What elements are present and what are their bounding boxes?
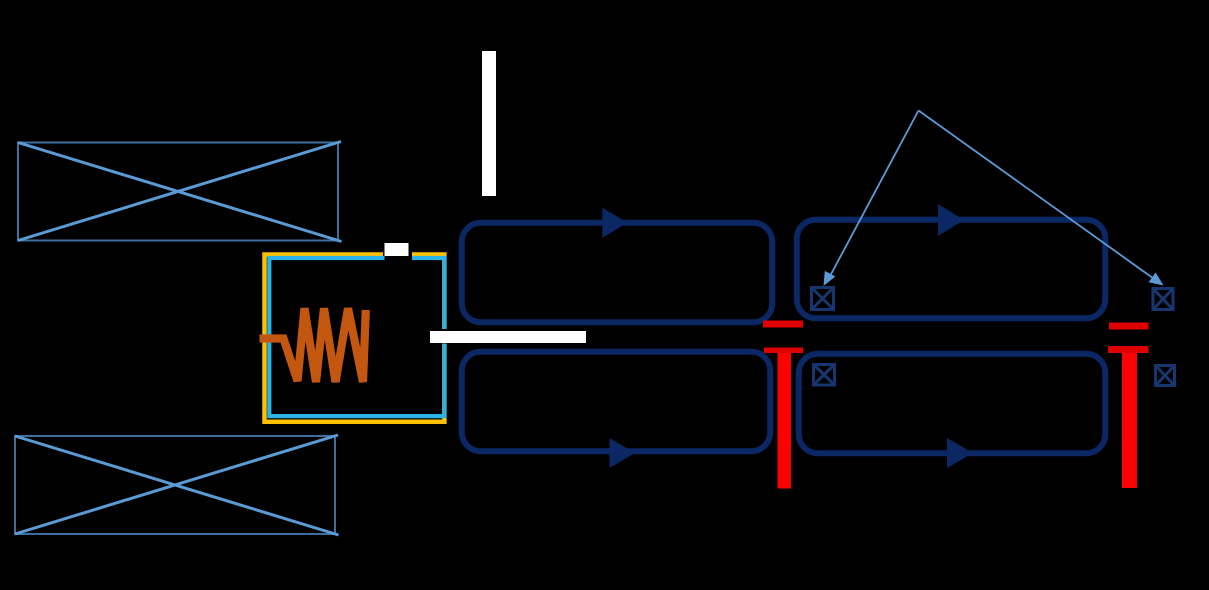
wire loop (cyan, source circuit) with switch gap at top and right-side break	[269, 258, 444, 416]
field-into-page symbol B4	[1156, 366, 1175, 386]
electrode stem E4 (red, right)	[1122, 353, 1137, 488]
resistor R1	[260, 308, 366, 382]
label placeholder (white horizontal bar between loops)	[430, 331, 586, 343]
field-into-page symbol B3	[814, 365, 835, 386]
current direction arrow on L4	[947, 438, 973, 468]
wire loop (yellow, source circuit) with switch gap at top	[265, 255, 445, 422]
current loop L4 (bottom right)	[799, 354, 1106, 454]
current direction arrow on L3	[610, 438, 636, 468]
current loop L2 (top right)	[797, 220, 1106, 319]
electrode T cap E4 (red, right)	[1108, 346, 1149, 353]
label placeholder (white vertical bar)	[482, 51, 496, 196]
current loop L3 (bottom left)	[462, 352, 771, 452]
field-into-page symbol B1	[812, 288, 834, 310]
current loop L1 (top left)	[462, 223, 773, 323]
electrode stem E2 (red, left)	[778, 353, 792, 489]
annotation arrow A1 (to B1)	[824, 111, 919, 287]
annotation arrow A2 (to B2)	[919, 111, 1164, 286]
crossed box M2 (lower magnet cross-section)	[15, 435, 339, 535]
label placeholder (white) over switch gap	[385, 243, 409, 256]
current direction arrow on L1	[602, 208, 627, 238]
electrode bar E1 (red, upper left)	[763, 321, 803, 328]
electrode bar E3 (red, upper right)	[1109, 323, 1149, 330]
electrode T cap E2 (red, left)	[764, 348, 803, 354]
current direction arrow on L2	[938, 204, 964, 236]
crossed box M1 (upper magnet cross-section)	[18, 142, 342, 242]
field-into-page symbol B2	[1153, 289, 1173, 310]
